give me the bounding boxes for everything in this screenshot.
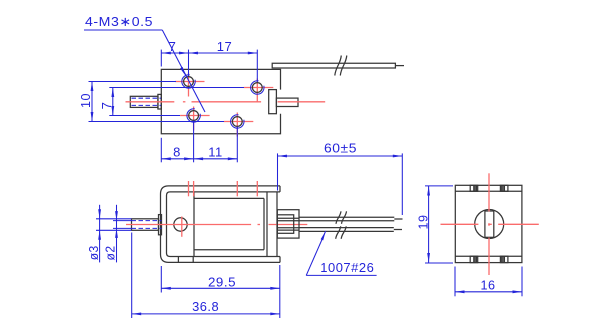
svg-text:ø3: ø3 bbox=[86, 245, 101, 260]
svg-text:4-M3∗0.5: 4-M3∗0.5 bbox=[85, 14, 153, 29]
svg-text:ø2: ø2 bbox=[103, 246, 118, 261]
svg-text:8: 8 bbox=[173, 144, 181, 159]
svg-text:11: 11 bbox=[208, 144, 223, 159]
svg-text:19: 19 bbox=[415, 215, 430, 230]
svg-text:16: 16 bbox=[481, 277, 496, 292]
svg-text:36.8: 36.8 bbox=[192, 299, 219, 314]
svg-text:17: 17 bbox=[217, 39, 232, 54]
svg-text:1007#26: 1007#26 bbox=[320, 260, 374, 275]
svg-text:10: 10 bbox=[78, 93, 93, 108]
svg-text:29.5: 29.5 bbox=[208, 274, 236, 289]
svg-text:60±5: 60±5 bbox=[324, 140, 357, 155]
svg-text:7: 7 bbox=[99, 102, 114, 110]
svg-text:7: 7 bbox=[169, 39, 177, 54]
